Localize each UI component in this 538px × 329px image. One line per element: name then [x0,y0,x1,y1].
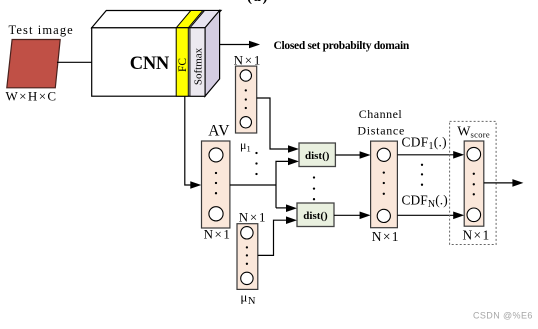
W bottom circle [467,208,481,222]
svg-text:Distance: Distance [357,124,405,138]
W vector box [464,141,484,226]
AV top circle [209,148,223,162]
svg-text:Softmax: Softmax [192,47,204,85]
dist2 box [297,203,334,227]
dots below mu1 [255,152,257,154]
svg-text:Wscore: Wscore [457,125,490,140]
channel distance top circle [377,148,390,161]
wire: channel distance to W box top [397,154,456,156]
CNN box side face [205,11,220,97]
AV vector box [202,141,230,228]
wire: muN to dist2 [258,220,288,255]
CNN box lavender top band [190,11,221,28]
muN vector box [237,224,258,290]
CNN box yellow top band [176,11,203,28]
svg-text:W×H×C: W×H×C [6,89,58,104]
mu1 vector box [236,66,257,133]
CNN box top face [92,11,221,28]
wire: dist2 to channel distance [334,214,362,216]
channel distance bottom circle [377,209,390,222]
svg-text:Channel: Channel [359,107,403,121]
svg-text:Closed set probabilty domain: Closed set probabilty domain [274,40,410,52]
svg-text:CSDN @%E6: CSDN @%E6 [473,311,533,321]
svg-text:CNN: CNN [130,54,170,74]
dist1 box [299,143,335,167]
W score dashed box [450,121,497,244]
wire: mu1 to dist1 [257,98,290,149]
Softmax stripe [190,28,205,96]
AV bottom circle [209,207,223,221]
svg-text:N×1: N×1 [239,209,268,224]
svg-text:μ1: μ1 [240,138,251,154]
wire: channel distance to W box bottom [397,214,456,216]
svg-text:CDF1(.): CDF1(.) [402,135,447,153]
svg-text:CDFN(.): CDFN(.) [402,192,448,210]
svg-text:AV: AV [208,123,230,140]
channel distance vector box [371,141,398,228]
mu1 bottom circle [240,117,251,128]
dots between dist boxes [313,176,315,178]
AV dots [215,172,217,174]
muN dots [246,246,248,248]
wire: final output arrow [484,182,514,184]
wire: CNN bottom to AV box [185,96,192,185]
svg-text:Test image: Test image [9,23,74,37]
svg-text:N×1: N×1 [462,228,490,243]
channel distance dots [383,171,385,173]
FC yellow stripe [176,28,188,96]
mu1 dots [245,89,247,91]
dots between CDF labels [421,164,423,166]
CNN box front face [92,28,205,96]
svg-text:N×1: N×1 [234,53,263,68]
svg-text:N×1: N×1 [204,226,232,241]
test image parallelogram [7,40,60,88]
svg-text:FC: FC [177,58,189,72]
mu1 top circle [240,70,251,81]
svg-text:(a): (a) [247,0,269,5]
muN bottom circle [241,272,253,284]
wire: test image to CNN [57,61,92,63]
W dots [473,173,475,175]
wire: dist1 to channel distance [335,154,362,156]
muN top circle [241,227,253,239]
W top circle [467,147,481,161]
svg-text:dist(): dist() [305,150,330,162]
svg-text:dist(): dist() [303,210,328,222]
svg-text:N×1: N×1 [372,229,400,244]
wire: AV output to junction and dist boxes [230,184,276,186]
wire: CNN right output arrow [220,44,251,46]
svg-text:μN: μN [240,290,256,308]
